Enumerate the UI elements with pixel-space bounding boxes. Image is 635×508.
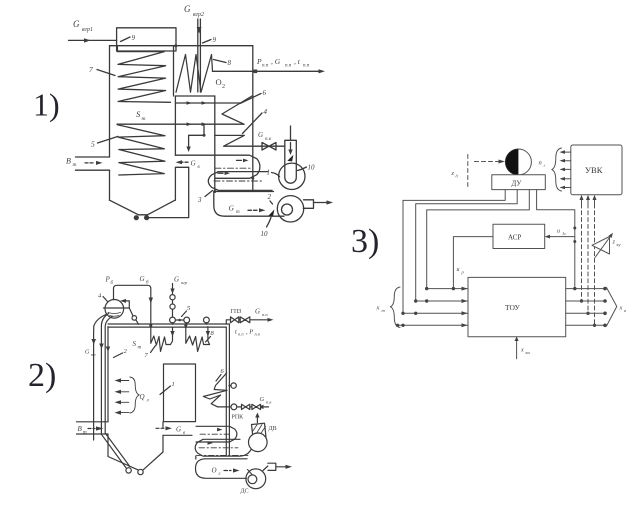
feedwater unit 10 [285, 140, 297, 183]
economizer coil 4 [215, 135, 253, 146]
label x_t [376, 305, 386, 314]
valve bowtie [262, 143, 276, 151]
svg-text:т: т [236, 210, 240, 215]
svg-text:т: т [83, 431, 87, 436]
svg-text:в: в [624, 308, 626, 313]
air heater capsule B [208, 171, 272, 190]
gas duct to fan [214, 192, 284, 217]
wire DU out d to right [537, 190, 577, 289]
wire bottom gas line [215, 191, 274, 193]
air heater capsule A [175, 155, 260, 178]
label 1 [267, 169, 280, 177]
svg-text:u: u [457, 267, 460, 273]
svg-text:1): 1) [33, 87, 60, 123]
pendant coil A [151, 327, 175, 351]
svg-text:5: 5 [187, 305, 191, 312]
fuel pipe B_t [77, 422, 109, 436]
svg-text:z: z [612, 239, 616, 246]
TOU output 3 [566, 312, 607, 316]
label G_vgr2 [184, 4, 204, 18]
svg-text:6: 6 [221, 368, 225, 375]
division wall rect 1 [164, 364, 196, 422]
svg-text:РПК: РПК [232, 415, 245, 421]
svg-text:1: 1 [172, 381, 175, 388]
label 9 left [121, 34, 136, 42]
label n_i [539, 160, 546, 169]
furnace left wall lower + hopper [108, 434, 163, 475]
boiler right wall [252, 46, 254, 192]
pendant coil B [184, 324, 210, 352]
air arrow G_v d2 [156, 426, 186, 437]
svg-text:п.в: п.в [266, 400, 271, 405]
block TOU [468, 277, 566, 336]
svg-text:ГПЗ: ГПЗ [231, 309, 242, 315]
header downturn twin [226, 324, 229, 455]
header riser circles [170, 317, 210, 324]
air outlet arrow G_v [176, 160, 201, 171]
svg-text:G: G [255, 308, 260, 316]
svg-text:8: 8 [211, 330, 215, 337]
svg-text:S: S [136, 109, 141, 119]
label P_b [105, 276, 114, 287]
wire ASR output [453, 237, 493, 289]
label 10 lower [261, 218, 272, 239]
feedwater valve line [253, 145, 285, 147]
svg-text:B: B [78, 425, 83, 433]
dot taps dashed [580, 299, 596, 327]
injection line [170, 284, 175, 318]
svg-text:, G: , G [271, 57, 281, 66]
fuel pipe [76, 157, 110, 170]
svg-text:д: д [456, 174, 459, 179]
label S_t [136, 109, 146, 122]
furnace left wall [106, 327, 110, 422]
svg-text:б: б [111, 281, 114, 286]
svg-text:1: 1 [267, 169, 271, 177]
wall between coils [173, 46, 175, 96]
wire recirculation pipe down [197, 19, 202, 92]
svg-text:7: 7 [89, 65, 93, 74]
svg-text:р: р [461, 270, 465, 275]
svg-text:Q: Q [140, 393, 145, 401]
wall to duct [195, 456, 197, 459]
svg-text:, P: , P [246, 329, 253, 336]
svg-text:вн: вн [526, 350, 531, 355]
wire tap to ASR [545, 235, 575, 239]
wire DU out b [416, 190, 518, 301]
label G_pp [255, 308, 268, 318]
TOU input 4 [396, 323, 468, 327]
label 2 [114, 348, 128, 358]
svg-text:п.п: п.п [255, 332, 261, 337]
brace x_t [390, 287, 400, 328]
svg-text:G: G [176, 426, 181, 434]
actuator triangle z_vu [592, 233, 613, 258]
UVK bottom arrows [580, 195, 597, 204]
svg-text:1с: 1с [562, 231, 566, 236]
svg-text:B: B [66, 157, 71, 166]
label 8 [214, 59, 232, 67]
svg-text:т: т [382, 308, 386, 313]
wire steam line b [117, 122, 244, 126]
third dashdot row [197, 454, 249, 456]
svg-text:пр: пр [91, 352, 96, 357]
svg-text:т: т [142, 116, 146, 122]
svg-text:G: G [85, 350, 90, 356]
junction dot [174, 44, 177, 47]
label G_pv d2 [260, 396, 272, 405]
svg-text:п.п: п.п [303, 64, 310, 69]
svg-text:i: i [544, 163, 546, 168]
svg-text:O: O [212, 467, 217, 475]
wire DU out c [427, 190, 530, 289]
stub circle on pipe [229, 383, 236, 388]
svg-text:4: 4 [98, 293, 102, 300]
svg-text:G: G [174, 276, 179, 284]
superheater coil 7 [117, 46, 170, 102]
label 8 [206, 330, 215, 342]
svg-text:9: 9 [132, 34, 136, 42]
svg-text:S: S [133, 340, 137, 348]
svg-text:x: x [520, 348, 524, 354]
svg-text:8: 8 [228, 59, 232, 67]
label G_pr [85, 350, 96, 358]
svg-text:x: x [619, 305, 623, 312]
TOU input 2 [414, 299, 468, 303]
svg-text:ДВ: ДВ [269, 426, 277, 432]
GPZ line [226, 318, 273, 324]
label 3 [197, 191, 213, 205]
svg-text:7: 7 [145, 352, 149, 359]
svg-text:, t: , t [294, 57, 301, 66]
svg-text:9: 9 [213, 36, 217, 44]
junction dots lower [213, 177, 254, 193]
superheater coil 8 [176, 55, 213, 93]
svg-text:t: t [235, 329, 237, 336]
label 5 [91, 136, 118, 148]
label P G t steam [256, 57, 310, 69]
svg-text:6: 6 [263, 89, 267, 97]
svg-text:O: O [216, 77, 222, 87]
label G_pv [258, 131, 272, 142]
fan circle 1 [279, 163, 305, 189]
svg-text:п.п: п.п [238, 332, 244, 337]
svg-text:ДС: ДС [241, 489, 249, 495]
label O2 [216, 77, 226, 90]
gas duct d2 [196, 459, 248, 479]
svg-text:п.п: п.п [285, 64, 292, 69]
label 9 right [203, 36, 217, 44]
svg-text:5: 5 [91, 140, 95, 149]
gas flow arrow [248, 208, 266, 212]
label 7 [89, 65, 115, 76]
svg-text:3: 3 [197, 196, 202, 204]
svg-text:вгр: вгр [181, 280, 188, 285]
hopper [110, 200, 176, 220]
label G_vgr inj [174, 276, 188, 286]
TOU input 3 [401, 311, 468, 315]
dashed disturbance line [467, 155, 469, 190]
svg-text:т: т [138, 346, 142, 351]
wire DU out a [403, 190, 505, 314]
label S_t d2 [133, 340, 142, 351]
smoke exhauster DS [246, 463, 276, 488]
svg-text:п.в: п.в [265, 137, 272, 142]
RPK feed line [218, 404, 269, 410]
radiant heat arrows Q_l [115, 377, 149, 415]
boiler top edge [110, 45, 253, 47]
wall step [175, 167, 188, 200]
boiler left wall lower [109, 170, 111, 200]
svg-text:АСР: АСР [508, 234, 521, 242]
label O_g [212, 467, 221, 478]
brace x_v [607, 288, 617, 327]
svg-text:G: G [260, 396, 265, 403]
TOU output 2 [566, 299, 607, 303]
wire drum steam line [114, 285, 154, 327]
svg-text:10: 10 [261, 230, 269, 238]
label G_t [229, 204, 241, 216]
svg-text:3): 3) [351, 223, 379, 260]
wall below air opening [163, 422, 192, 436]
svg-text:ТОУ: ТОУ [505, 303, 520, 312]
wire steam line a [175, 101, 240, 105]
svg-text:2: 2 [124, 348, 128, 355]
middle box [175, 96, 214, 192]
svg-text:ДУ: ДУ [512, 180, 522, 188]
GPZ valves [231, 317, 250, 323]
label 6 [240, 89, 267, 104]
svg-text:2): 2) [28, 357, 56, 394]
label G_vgr1 [73, 19, 93, 33]
wire fuel-gas inlet 1 [69, 38, 117, 42]
drum box 9 [117, 28, 176, 51]
gas arrow to DS [224, 468, 240, 472]
feedwater unit pipe top [290, 126, 292, 140]
wire L-pipe with down arrow [186, 124, 205, 152]
svg-text:в: в [198, 165, 201, 170]
label z_d [451, 170, 459, 179]
boiler left wall upper [109, 46, 111, 157]
TOU input 1 [425, 287, 468, 291]
label u_r [457, 267, 465, 275]
svg-text:2: 2 [222, 84, 225, 90]
svg-text:4: 4 [264, 108, 268, 116]
downcomer twin [99, 314, 131, 474]
svg-text:УВК: УВК [585, 165, 603, 175]
svg-text:n: n [539, 160, 542, 167]
label B_t [66, 157, 77, 169]
svg-text:п.п: п.п [262, 312, 268, 317]
blowdown pipe [91, 315, 106, 441]
label 6 [216, 368, 225, 381]
svg-text:G: G [140, 275, 145, 283]
economizer coil 6 d2 [203, 373, 227, 407]
svg-text:G: G [229, 204, 235, 213]
svg-text:z: z [451, 170, 455, 177]
label 1 [160, 381, 175, 395]
label u_1c [557, 229, 566, 237]
label 4 [98, 293, 108, 302]
convective coil 6 [222, 96, 253, 125]
label z_vu [612, 239, 621, 248]
svg-text:л: л [146, 399, 149, 404]
drum [104, 300, 130, 319]
flue out arrow d2 [276, 465, 292, 469]
label G_b [140, 275, 150, 286]
operator circle [505, 149, 531, 175]
label 4 [243, 108, 268, 134]
svg-text:п.п: п.п [262, 64, 269, 69]
svg-text:G: G [184, 4, 191, 14]
brace UVK [552, 148, 562, 191]
svg-text:G: G [191, 160, 196, 168]
label 7 [145, 346, 156, 360]
svg-text:u: u [557, 229, 560, 235]
svg-text:вгр1: вгр1 [82, 27, 93, 33]
block DU [492, 175, 546, 190]
block ASR [493, 224, 545, 248]
UVK display arrows [560, 150, 571, 189]
svg-text:г: г [219, 472, 221, 477]
steam header twin pipe [108, 324, 229, 327]
air heater capsule B d2 [195, 439, 251, 456]
smoke exhauster fan 2 [277, 196, 313, 222]
svg-text:вгр2: вгр2 [193, 12, 204, 18]
fan DV [248, 413, 267, 452]
label t P below [235, 329, 261, 337]
svg-text:x: x [376, 305, 380, 312]
flue gas out arrow [314, 200, 334, 204]
label 5 [182, 305, 192, 317]
svg-text:2: 2 [268, 193, 272, 201]
TOU output 4 [566, 324, 607, 328]
label 10 upper [298, 164, 316, 172]
block UVK [571, 145, 622, 195]
label x_v [619, 305, 627, 314]
coil 5 [117, 125, 165, 175]
TOU output 1 [566, 287, 607, 291]
svg-text:G: G [73, 19, 80, 29]
wire steam output [213, 69, 326, 73]
sensor flag lower [268, 209, 274, 216]
air heater capsule A d2 [196, 426, 237, 442]
operator dashed arrow [475, 160, 506, 164]
svg-text:G: G [258, 131, 263, 139]
feed line into drum [120, 299, 139, 324]
label x_vn [520, 348, 530, 356]
dashed feedback verticals [582, 204, 595, 324]
label 2 [268, 193, 273, 204]
svg-text:10: 10 [308, 164, 316, 172]
svg-text:ву: ву [617, 242, 621, 247]
wire ash duct [148, 167, 189, 217]
disturbance arrow x_vn [515, 337, 519, 359]
svg-text:т: т [73, 162, 77, 168]
